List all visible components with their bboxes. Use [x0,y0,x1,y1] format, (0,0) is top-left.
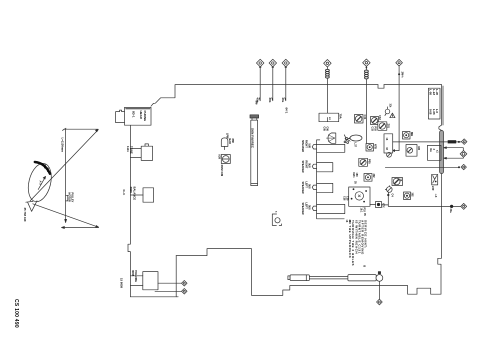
capacitor black square [370,202,388,208]
svg-text:MB: MB [410,132,414,136]
svg-text:8D-1: 8D-1 [132,111,136,118]
svg-text:SPEAKER: SPEAKER [301,161,304,173]
svg-text:IN THE UPPERDECK: IN THE UPPERDECK [348,220,352,259]
headphone jack BU1 [125,107,152,125]
headphone plug [116,110,125,123]
connector diamond 23a [461,203,467,209]
pin lug 2 [312,164,316,168]
svg-text:D~C: D~C [122,190,126,196]
svg-text:L-J8: L-J8 [435,89,439,95]
diagonal sight line upper [30,129,98,201]
svg-text:P18: P18 [363,208,366,213]
wire 40b [259,67,260,101]
connector diamond 40b [256,59,263,67]
svg-text:302: 302 [372,174,375,179]
svg-text:33t: 33t [389,104,393,108]
relay Re3 [427,145,441,160]
wire to connector 15a [158,282,182,284]
svg-text:B: B [363,265,366,267]
svg-text:IOR: IOR [217,155,221,160]
svg-text:230: 230 [431,186,435,191]
wire C4 to 23a [388,196,461,206]
trimmer T3 [378,122,387,131]
stylus arrow [38,176,45,189]
trimmer T1 [355,115,364,124]
mains voltage selector 230V [432,174,438,185]
axial capacitor C37 [344,135,362,141]
tonearm [288,272,383,282]
wire to connector 15b [155,290,182,292]
pin lug 3 [312,185,316,189]
svg-text:XTX: XTX [382,203,385,208]
svg-text:16:1: 16:1 [360,208,363,213]
svg-text:SPEAKER: SPEAKER [301,182,304,194]
svg-text:C38: C38 [343,196,346,201]
svg-text:MOTOR: MOTOR [68,193,71,202]
coil L1 [326,69,330,78]
wire 16a with fuse [393,140,462,143]
svg-text:P05: P05 [367,159,371,164]
svg-text:SKN FAV/REC: SKN FAV/REC [251,128,255,149]
thermistor below relay [387,152,392,157]
junction dot 23a [450,205,453,208]
dimension vertical line [62,128,98,222]
svg-text:L=1130mm: L=1130mm [61,138,65,153]
svg-text:40a: 40a [281,98,285,103]
wire 17a [385,166,460,168]
svg-text:RIGHT: RIGHT [304,161,307,169]
edge connector bar [440,131,444,174]
svg-text:C31: C31 [363,115,367,120]
wire 30b [272,67,273,101]
trimmer T8 [403,132,411,140]
svg-text:180: 180 [355,173,358,178]
svg-text:L37: L37 [354,143,358,148]
pin lug 4 [312,206,316,210]
connector diamond 16a [461,139,467,145]
svg-text:HEAD: HEAD [139,111,143,120]
wire loop to mains diamond [444,147,464,159]
slider switch FAV/REC [250,115,259,186]
wire from L1 to R1 [326,67,328,113]
speaker connector comb [317,140,345,219]
platter illustration ellipse [25,161,55,204]
svg-text:C39: C39 [346,196,349,201]
svg-text:A-3: A-3 [39,181,43,186]
motor M1 [349,187,370,206]
svg-text:PULLEY: PULLEY [71,193,74,203]
capacitor C30 [272,214,281,225]
connector diamond 17a [461,164,466,169]
svg-text:MA1: MA1 [352,173,355,179]
variable resistor C4 [385,186,392,196]
connector diamond tonearm [377,299,383,305]
right edge connector strip top [428,88,440,119]
svg-text:SPEAKER: SPEAKER [301,140,304,152]
R1 rectangle [319,113,339,122]
connector diamond with coil L1 [324,60,331,67]
svg-text:LEFT: LEFT [304,203,307,210]
svg-text:30b: 30b [268,98,272,103]
service hint text block [348,220,368,266]
volume pot [130,272,158,290]
capacitor NTB square [366,144,374,152]
pin lug 1 [312,145,316,149]
svg-text:CS 100 490: CS 100 490 [13,299,19,328]
svg-text:TONE: TONE [130,146,134,154]
svg-text:L-0: L-0 [435,109,439,114]
svg-text:SPEAKER: SPEAKER [301,203,304,215]
connector diamond 15a [182,280,188,286]
warning triangle [390,113,395,118]
connector diamond 2M [396,59,403,66]
svg-text:RIGHT: RIGHT [304,140,307,148]
svg-text:LEFT: LEFT [304,182,307,189]
svg-text:880: 880 [231,139,235,144]
wire 40a [285,67,286,101]
tonearm wire [378,281,380,299]
capacitor square 302 [404,192,411,200]
mains connector diamond [460,151,467,158]
coil L2 [365,70,369,79]
electrolytic cap BAD880 [221,138,228,150]
svg-text:∿X: ∿X [434,194,438,198]
svg-text:NTB: NTB [374,144,377,149]
svg-text:23a·: 23a· [449,209,452,214]
svg-text:40Z2=OM: 40Z2=OM [220,165,224,177]
svg-text:64°1: 64°1 [285,108,289,114]
trimmer IOR [221,155,230,164]
svg-text:302: 302 [410,193,413,198]
svg-text:Z01: Z01 [387,124,391,129]
speaker icon [326,133,336,143]
diagonal sight line lower [33,204,99,228]
svg-text:C05: C05 [322,127,325,132]
svg-text:15 6059: 15 6059 [120,278,124,289]
svg-text:C33: C33 [370,127,373,132]
connector diamond 30b [269,59,276,67]
capacitor square MA [364,174,372,182]
relay Re1 [384,134,393,153]
capacitor with flag C33 [385,107,390,116]
svg-text:8M·: 8M· [255,101,259,106]
trimmer P05 [359,158,368,166]
svg-text:BALANCE: BALANCE [133,187,137,201]
cut/scissors mark [344,138,350,144]
drive belt arc [35,162,50,174]
svg-text:C06: C06 [326,127,329,132]
balance pot [130,188,153,202]
svg-text:PHONE: PHONE [143,111,147,122]
PCB board outline [128,85,443,297]
trimmer T9 [392,178,403,186]
svg-text:35 738 440: 35 738 440 [23,208,27,222]
connector diamond with coil L2 [363,59,370,68]
trimmer T2 [371,117,379,125]
wire from 2M to relay [393,66,400,152]
tone switch [130,144,152,161]
svg-text:C32: C32 [378,115,382,120]
svg-text:VOLUME: VOLUME [134,270,138,282]
module M3 [406,145,417,157]
connector diamond 40a [282,59,289,67]
dimension horizontal line [62,227,99,229]
pointer V below platter [26,201,37,212]
wire from L2 down [365,66,367,144]
svg-text:P03: P03 [373,127,376,132]
connector diamond 15b [182,289,188,295]
spindle notch [66,195,68,201]
svg-text:CAT: CAT [46,168,50,174]
svg-text:70A: 70A [339,114,343,119]
svg-text:M3: M3 [417,147,421,151]
svg-text:2M∿: 2M∿ [400,72,404,79]
